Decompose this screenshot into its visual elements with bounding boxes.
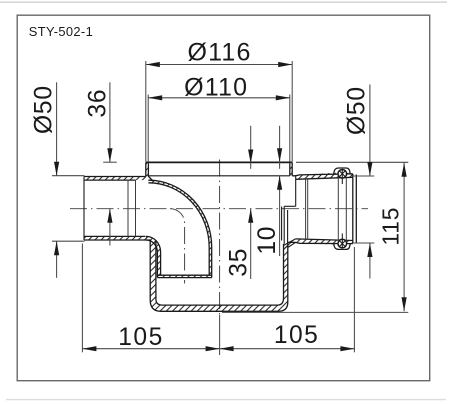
svg-text:Ø110: Ø110 [184, 73, 248, 101]
svg-text:STY-502-1: STY-502-1 [29, 24, 93, 39]
svg-text:105: 105 [118, 324, 164, 351]
svg-text:Ø116: Ø116 [188, 38, 252, 66]
svg-text:35: 35 [225, 248, 252, 277]
svg-text:36: 36 [85, 89, 112, 118]
svg-text:115: 115 [378, 207, 404, 246]
svg-text:Ø50: Ø50 [343, 86, 370, 135]
svg-text:10: 10 [254, 226, 281, 255]
svg-text:Ø50: Ø50 [30, 85, 57, 134]
svg-text:105: 105 [274, 322, 320, 349]
